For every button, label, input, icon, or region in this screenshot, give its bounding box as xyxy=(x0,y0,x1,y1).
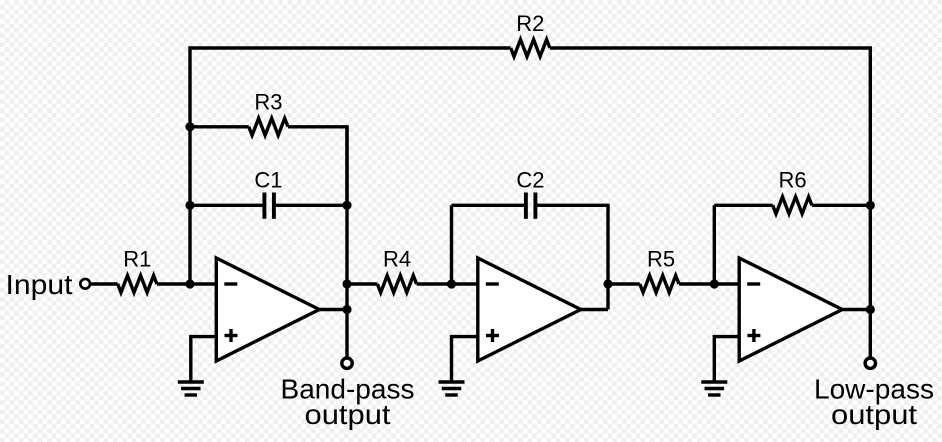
junction C2 right R5 row xyxy=(603,279,612,288)
wire R4 to op-amp U2 inverting input xyxy=(417,282,478,285)
svg-text:R4: R4 xyxy=(383,247,411,272)
svg-text:output: output xyxy=(305,399,391,430)
svg-text:R2: R2 xyxy=(516,11,544,36)
resistor R1 xyxy=(118,276,157,293)
wire U3 output xyxy=(842,308,870,311)
svg-text:Input: Input xyxy=(6,269,73,300)
resistor R5 xyxy=(640,276,679,293)
wire C2 row left xyxy=(452,204,526,207)
wire U2 output to R5 xyxy=(608,282,640,285)
junction right column U3 output xyxy=(866,305,875,314)
wire R6 row right xyxy=(812,204,870,207)
resistor R4 xyxy=(377,276,416,293)
ground U3 xyxy=(701,382,727,395)
resistor R2 xyxy=(511,40,550,57)
op-amp U2 xyxy=(478,258,581,361)
junction band-pass column C1 row xyxy=(342,201,351,210)
wire top feedback right segment xyxy=(550,48,870,358)
band-pass output terminal xyxy=(342,358,352,368)
wire R3 row left xyxy=(190,125,249,128)
wire U2 output xyxy=(581,308,608,311)
wire R1 to op-amp U1 inverting input xyxy=(157,282,216,285)
junction band-pass column R4 row xyxy=(342,279,351,288)
wire R6 row left xyxy=(714,204,772,207)
wire C1 row right xyxy=(274,204,347,207)
wire R5 to op-amp U3 inverting input xyxy=(679,282,739,285)
wire C2 left vertical xyxy=(450,205,453,284)
wire top feedback left segment xyxy=(190,48,511,284)
wire band-pass column xyxy=(345,127,348,358)
junction right column R6 row xyxy=(866,201,875,210)
wire U3 non-inverting input to ground xyxy=(714,337,739,381)
junction left column R3 row xyxy=(185,122,194,131)
wire U2 non-inverting input to ground xyxy=(452,337,478,381)
wire C1 row left xyxy=(190,204,264,207)
svg-text:R6: R6 xyxy=(778,167,806,192)
wire input to R1 xyxy=(90,282,118,285)
capacitor C2 xyxy=(526,193,536,219)
wire C2 row right xyxy=(535,205,608,309)
wire R6 left vertical xyxy=(713,205,716,284)
junction R6 left R5 row xyxy=(710,279,719,288)
svg-text:C2: C2 xyxy=(516,167,544,192)
svg-text:R3: R3 xyxy=(254,89,282,114)
junction band-pass column U1 output xyxy=(342,305,351,314)
resistor R6 xyxy=(773,197,812,214)
op-amp U3 xyxy=(739,258,842,361)
svg-text:C1: C1 xyxy=(254,167,282,192)
svg-text:R5: R5 xyxy=(647,247,675,272)
resistor R3 xyxy=(249,118,288,135)
wire U1 output to R4 xyxy=(347,282,377,285)
svg-text:R1: R1 xyxy=(123,247,151,272)
wire U1 output xyxy=(319,308,347,311)
ground U2 xyxy=(439,382,465,395)
node A input junction xyxy=(185,279,194,288)
svg-text:output: output xyxy=(831,399,917,430)
wire U1 non-inverting input to ground xyxy=(191,337,217,381)
op-amp U1 xyxy=(216,258,319,361)
capacitor C1 xyxy=(264,193,274,219)
ground U1 xyxy=(178,382,204,395)
junction C2 left R4 row xyxy=(447,279,456,288)
junction left column C1 row xyxy=(185,201,194,210)
wire R3 row right xyxy=(288,127,347,206)
low-pass output terminal xyxy=(865,358,875,368)
input terminal xyxy=(80,279,90,289)
